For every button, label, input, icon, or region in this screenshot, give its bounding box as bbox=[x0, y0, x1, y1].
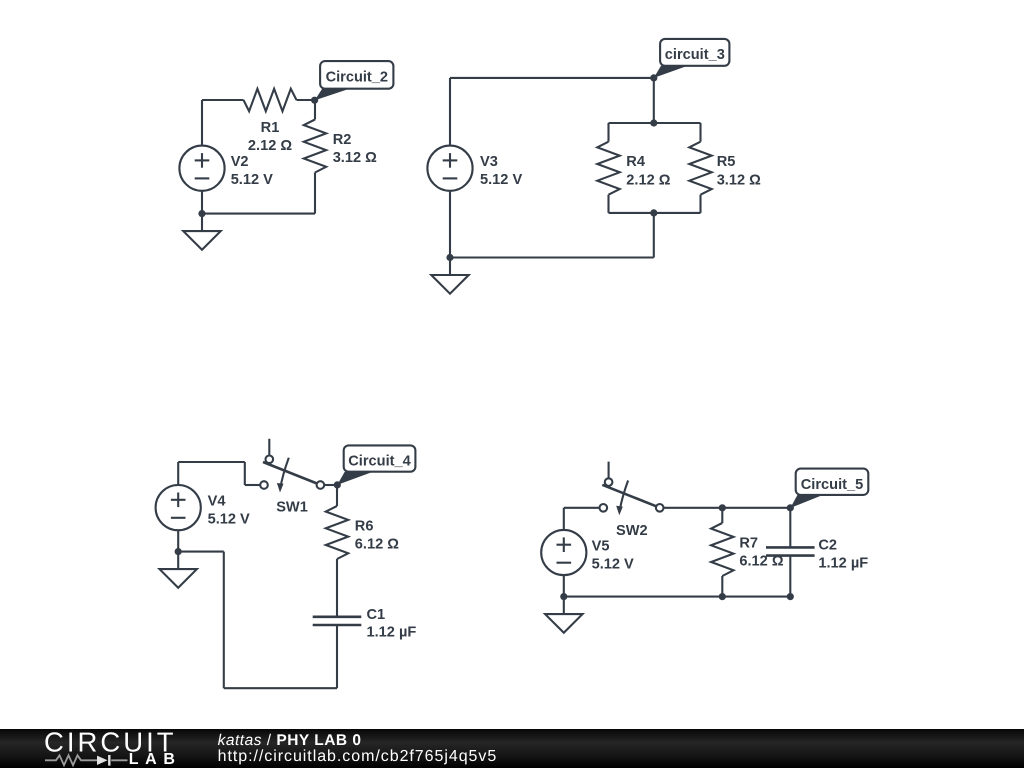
resistor R6 bbox=[326, 506, 348, 559]
ground bbox=[160, 552, 197, 588]
net label callout circuit_3 bbox=[654, 39, 730, 78]
svg-text:R5: R5 bbox=[717, 154, 736, 170]
wire bbox=[609, 212, 701, 214]
switch SW1 bbox=[260, 439, 324, 493]
wire bbox=[450, 77, 654, 79]
switch SW2 bbox=[600, 462, 664, 516]
wire bbox=[699, 195, 701, 213]
node circuit_3 bbox=[650, 74, 657, 81]
svg-text:V3: V3 bbox=[480, 154, 498, 170]
wire bbox=[336, 485, 338, 506]
svg-text:5.12 V: 5.12 V bbox=[208, 512, 250, 528]
CircuitLab logo wordmark bbox=[44, 727, 177, 758]
label R1 value bbox=[248, 120, 292, 154]
wire bbox=[721, 576, 723, 597]
wire bbox=[564, 596, 791, 598]
wire bbox=[450, 256, 654, 258]
node junction bbox=[787, 593, 794, 600]
svg-text:SW1: SW1 bbox=[276, 500, 308, 516]
footer title text bbox=[218, 732, 362, 749]
wire bbox=[178, 461, 245, 463]
svg-text:R1: R1 bbox=[261, 120, 280, 136]
wire bbox=[202, 99, 244, 101]
wire bbox=[177, 462, 179, 485]
net label callout Circuit_4 bbox=[337, 445, 415, 485]
wire bbox=[609, 122, 701, 124]
resistor R5 bbox=[689, 142, 711, 195]
resistor R2 bbox=[304, 120, 326, 173]
wire bbox=[245, 484, 260, 486]
wire bbox=[201, 191, 203, 214]
wire bbox=[789, 508, 791, 548]
label R7 value bbox=[739, 535, 783, 569]
node junction bbox=[175, 548, 182, 555]
wire bbox=[202, 213, 315, 215]
svg-text:2.12 Ω: 2.12 Ω bbox=[248, 138, 292, 154]
node junction bbox=[560, 593, 567, 600]
svg-text:Circuit_5: Circuit_5 bbox=[801, 477, 863, 493]
label C2 value bbox=[818, 538, 868, 572]
label V2 value bbox=[231, 154, 273, 188]
wire bbox=[607, 123, 609, 142]
wire bbox=[449, 78, 451, 146]
label R2 value bbox=[333, 132, 377, 166]
label C1 value bbox=[367, 607, 417, 641]
svg-text:2.12 Ω: 2.12 Ω bbox=[626, 172, 670, 188]
wire bbox=[564, 507, 600, 509]
net label callout Circuit_2 bbox=[315, 61, 394, 100]
svg-text:C1: C1 bbox=[367, 607, 386, 623]
resistor R7 bbox=[711, 523, 733, 576]
resistor R4 bbox=[597, 142, 619, 195]
node junction bbox=[719, 593, 726, 600]
logo resistor-diode glyph bbox=[45, 755, 128, 766]
label V3 value bbox=[480, 154, 522, 188]
label R6 value bbox=[355, 518, 399, 552]
wire bbox=[563, 508, 565, 530]
svg-text:V5: V5 bbox=[592, 539, 610, 555]
node Circuit_5 bbox=[787, 504, 794, 511]
wire bbox=[314, 173, 316, 214]
svg-text:kattas / PHY LAB 0: kattas / PHY LAB 0 bbox=[218, 732, 362, 749]
node junction bbox=[650, 209, 657, 216]
ground bbox=[545, 597, 582, 633]
resistor R1 bbox=[244, 89, 297, 111]
svg-text:6.12 Ω: 6.12 Ω bbox=[355, 537, 399, 553]
node Circuit_2 bbox=[311, 97, 318, 104]
node Circuit_4 bbox=[334, 481, 341, 488]
wire bbox=[663, 507, 790, 509]
svg-text:Circuit_4: Circuit_4 bbox=[348, 454, 411, 470]
svg-text:1.12 µF: 1.12 µF bbox=[818, 555, 868, 571]
wire bbox=[177, 530, 179, 551]
svg-text:V2: V2 bbox=[231, 154, 249, 170]
svg-text:5.12 V: 5.12 V bbox=[231, 172, 273, 188]
svg-text:5.12 V: 5.12 V bbox=[592, 557, 634, 573]
svg-text:LAB: LAB bbox=[129, 751, 182, 768]
svg-text:R7: R7 bbox=[739, 535, 758, 551]
svg-text:C2: C2 bbox=[818, 538, 837, 554]
voltage source V4 bbox=[156, 485, 201, 530]
svg-text:SW2: SW2 bbox=[616, 523, 648, 539]
svg-text:5.12 V: 5.12 V bbox=[480, 172, 522, 188]
label R5 value bbox=[717, 154, 761, 188]
capacitor C2 bbox=[766, 547, 815, 555]
wire bbox=[178, 551, 224, 553]
wire bbox=[223, 552, 225, 689]
node junction bbox=[446, 254, 453, 261]
label R4 value bbox=[626, 154, 670, 188]
svg-text:Circuit_2: Circuit_2 bbox=[326, 69, 388, 85]
label V5 value bbox=[592, 539, 634, 573]
wire bbox=[224, 687, 337, 689]
wire bbox=[297, 99, 315, 101]
svg-text:circuit_3: circuit_3 bbox=[665, 47, 725, 63]
svg-text:1.12 µF: 1.12 µF bbox=[367, 625, 417, 641]
wire bbox=[324, 484, 337, 486]
label V4 value bbox=[208, 494, 250, 528]
svg-text:3.12 Ω: 3.12 Ω bbox=[717, 172, 761, 188]
node junction bbox=[719, 504, 726, 511]
wire bbox=[653, 78, 655, 123]
ground bbox=[431, 258, 468, 294]
node junction bbox=[198, 210, 205, 217]
wire bbox=[314, 100, 316, 120]
wire bbox=[244, 462, 246, 485]
svg-text:V4: V4 bbox=[208, 494, 227, 510]
voltage source V5 bbox=[541, 530, 586, 575]
wire bbox=[721, 508, 723, 523]
wire bbox=[607, 195, 609, 213]
wire bbox=[449, 191, 451, 258]
svg-text:R6: R6 bbox=[355, 518, 374, 534]
node junction bbox=[650, 119, 657, 126]
net label callout Circuit_5 bbox=[790, 469, 868, 508]
wire bbox=[789, 556, 791, 597]
svg-text:R4: R4 bbox=[626, 154, 646, 170]
ground bbox=[183, 214, 220, 250]
svg-text:R2: R2 bbox=[333, 132, 352, 148]
footer url text bbox=[218, 748, 498, 765]
svg-text:http://circuitlab.com/cb2f765j: http://circuitlab.com/cb2f765j4q5v5 bbox=[218, 748, 498, 765]
wire bbox=[336, 625, 338, 688]
svg-text:3.12 Ω: 3.12 Ω bbox=[333, 150, 377, 166]
wire bbox=[336, 559, 338, 617]
voltage source V2 bbox=[179, 146, 224, 191]
wire bbox=[563, 575, 565, 597]
voltage source V3 bbox=[427, 146, 472, 191]
capacitor C1 bbox=[313, 617, 362, 625]
wire bbox=[201, 100, 203, 146]
wire bbox=[699, 123, 701, 142]
logo LAB text bbox=[129, 751, 182, 768]
wire bbox=[653, 213, 655, 258]
